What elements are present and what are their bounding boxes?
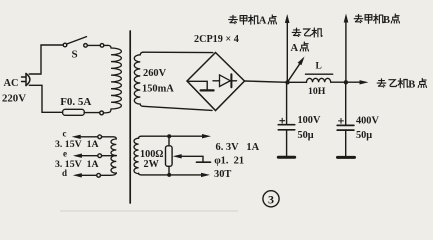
junction B vertical bbox=[345, 22, 347, 83]
wiper wire bbox=[181, 156, 203, 162]
svg-text:50μ: 50μ bbox=[356, 130, 372, 141]
svg-text:L: L bbox=[316, 62, 322, 72]
main bus wire bbox=[245, 81, 307, 82]
svg-text:B: B bbox=[408, 80, 415, 91]
wire plug top to switch bbox=[29, 45, 63, 74]
capacitor C1 100V 50u bbox=[286, 82, 288, 124]
svg-text:150mA: 150mA bbox=[142, 84, 174, 95]
AC plug P bbox=[25, 74, 27, 86]
potentiometer R 100ohm 2W bbox=[168, 136, 170, 146]
wire 6.3V top bbox=[141, 135, 203, 137]
arrowhead 30T bbox=[201, 173, 210, 177]
svg-text:F0. 5A: F0. 5A bbox=[60, 96, 91, 108]
transformer core bbox=[129, 31, 131, 203]
svg-text:e: e bbox=[63, 149, 67, 159]
wire secondary bottom to bridge bbox=[143, 106, 212, 110]
3.15V winding e-d bbox=[98, 154, 102, 158]
capacitor C2 400V 50u bbox=[345, 82, 347, 125]
wire switch to primary bbox=[104, 44, 108, 46]
fuse F0.5A bbox=[63, 109, 85, 115]
svg-text:220V: 220V bbox=[2, 93, 26, 105]
6.3V winding bbox=[139, 136, 141, 138]
arrowhead wiper bbox=[173, 154, 182, 158]
arrowhead to 甲B bbox=[344, 14, 349, 23]
junction A bbox=[286, 22, 288, 83]
svg-text:2W: 2W bbox=[144, 159, 160, 170]
3.15V winding c-e bbox=[98, 135, 102, 139]
label 去甲机A点 (to machine-A point A) bbox=[229, 15, 277, 27]
svg-text:d: d bbox=[62, 168, 67, 178]
arrowhead d bbox=[73, 173, 82, 177]
junction dot A bbox=[285, 80, 289, 84]
terminal lead e bbox=[81, 155, 98, 157]
svg-text:B: B bbox=[383, 15, 390, 26]
label 去乙机 A点 (to machine-B point A) bbox=[291, 28, 323, 54]
svg-text:A: A bbox=[291, 43, 299, 54]
svg-text:AC: AC bbox=[4, 78, 19, 89]
diagonal wire to 乙机A bbox=[288, 63, 300, 81]
wire plug bottom to fuse bbox=[29, 85, 62, 112]
arrowhead to 乙A diagonal bbox=[298, 57, 305, 66]
arrowhead to 甲A bbox=[285, 14, 290, 23]
wire 6.3V bottom bbox=[141, 174, 202, 176]
svg-text:400V: 400V bbox=[356, 115, 379, 126]
figure number circle 3 bbox=[263, 191, 279, 207]
arrowhead c bbox=[72, 135, 81, 139]
svg-text:3. 15V 1A: 3. 15V 1A bbox=[55, 139, 99, 150]
svg-text:6. 3V 1A: 6. 3V 1A bbox=[216, 142, 260, 153]
junction dot R top bbox=[167, 134, 171, 138]
bridge internal diode bbox=[213, 80, 220, 82]
secondary 260V winding bbox=[140, 52, 143, 55]
svg-text:260V: 260V bbox=[143, 68, 167, 79]
svg-text:100V: 100V bbox=[298, 115, 321, 126]
svg-text:10H: 10H bbox=[308, 86, 326, 97]
svg-text:3: 3 bbox=[268, 192, 274, 206]
label 去乙机B点 (to machine-B point B) bbox=[377, 78, 426, 90]
svg-text:30T: 30T bbox=[214, 169, 231, 180]
inductor L 10H bbox=[307, 78, 331, 82]
svg-text:φ1. 21: φ1. 21 bbox=[214, 155, 244, 166]
svg-text:c: c bbox=[63, 129, 67, 139]
switch S bbox=[63, 43, 67, 47]
arrowhead to 乙B bbox=[360, 80, 369, 84]
wire secondary top to bridge bbox=[143, 51, 213, 53]
faint scan smudge bottom bbox=[60, 210, 238, 212]
junction dot B bbox=[344, 80, 348, 84]
svg-text:S: S bbox=[72, 49, 78, 61]
terminal lead c bbox=[80, 136, 98, 138]
transformer primary winding bbox=[108, 45, 111, 48]
svg-text:2CP19 × 4: 2CP19 × 4 bbox=[194, 34, 239, 45]
bridge rectifier diamond 2CP19x4 bbox=[187, 53, 245, 111]
svg-text:50μ: 50μ bbox=[298, 130, 314, 141]
arrowhead 6.3V bbox=[202, 134, 211, 138]
bridge internal symbol left bbox=[188, 81, 207, 89]
arrowhead e bbox=[73, 154, 82, 158]
terminal lead d bbox=[81, 174, 97, 176]
junction dot R bottom bbox=[167, 173, 171, 177]
wire fuse to terminal bbox=[84, 112, 99, 114]
label 去甲机B点 (to machine-A point B) bbox=[354, 14, 399, 26]
svg-text:A: A bbox=[259, 16, 267, 27]
